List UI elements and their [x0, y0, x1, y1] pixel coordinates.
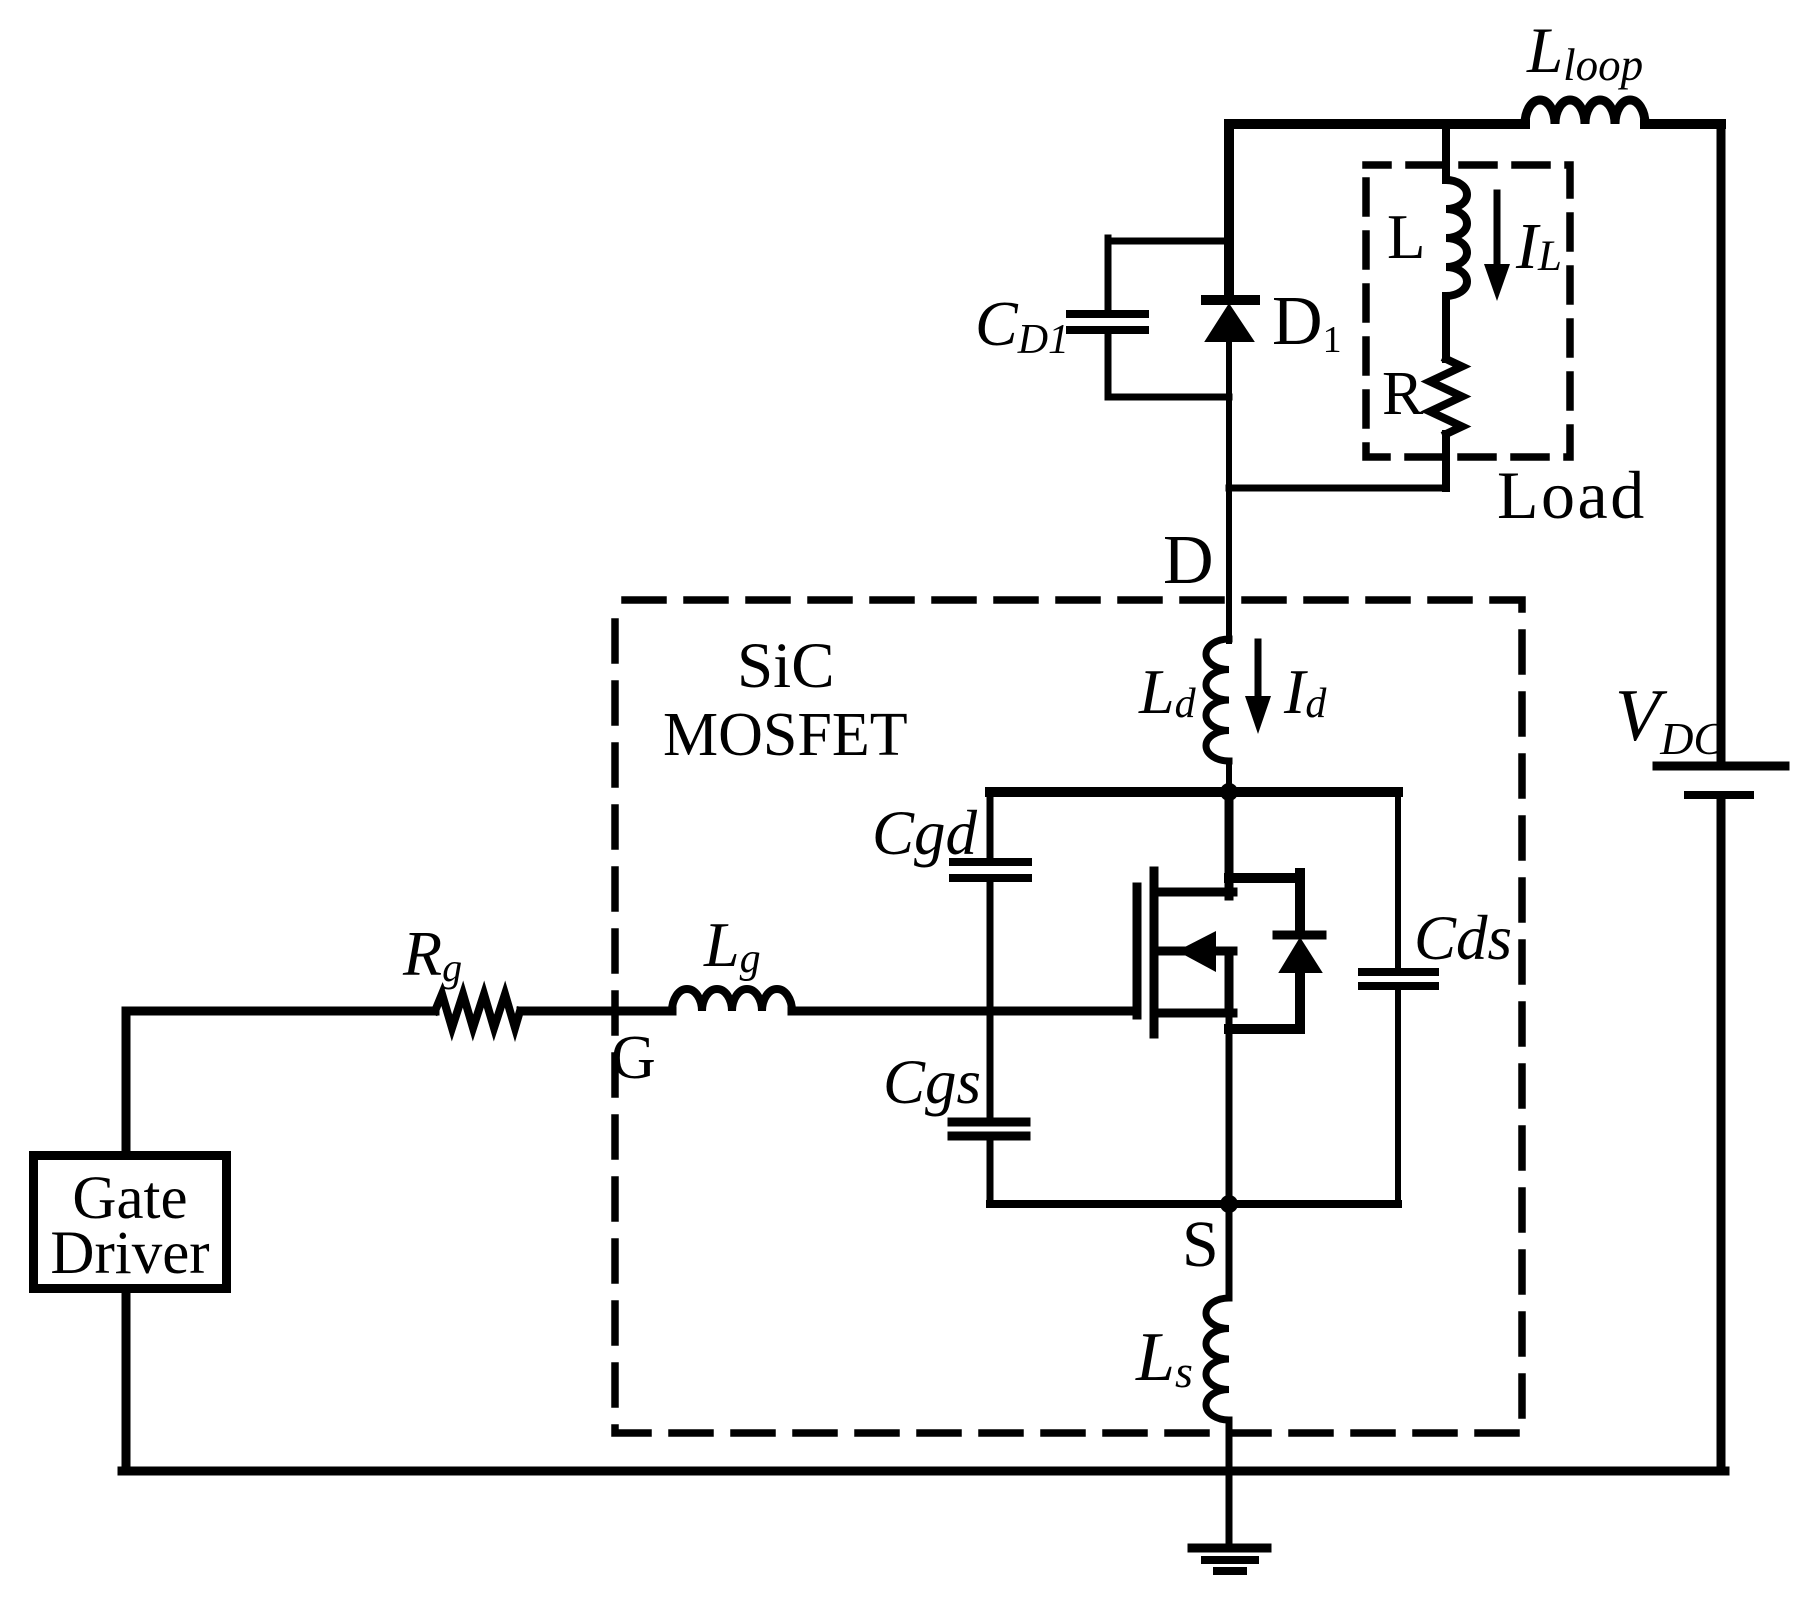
wire main vertical thick (top corner to D1 cathode) [1224, 124, 1234, 300]
wire gate run (driver to MOSFET gate) [126, 1007, 435, 1016]
node drain junction dot [1220, 783, 1238, 801]
wire gate driver bottom lead [122, 1289, 131, 1471]
wire main vertical (D1 anode down to MOSFET box) [1226, 341, 1232, 641]
svg-text:Driver: Driver [50, 1220, 209, 1287]
capacitor Cgd top plate [953, 858, 1028, 866]
capacitor Cds upper lead [1395, 792, 1401, 968]
gate driver box [34, 1156, 227, 1289]
capacitor Cgs top plate [952, 1118, 1026, 1127]
arrow Id current [1255, 642, 1262, 700]
svg-text:SiC: SiC [737, 630, 835, 702]
capacitor Cds lower lead [1395, 990, 1401, 1204]
capacitor Cgs lower lead [987, 1140, 994, 1204]
wire Lg to gate bar [792, 1007, 1137, 1016]
ground symbol bar2 [1205, 1556, 1255, 1564]
capacitor Cds top plate [1362, 968, 1435, 976]
resistor R (load) [1430, 359, 1462, 434]
svg-text:Rg: Rg [402, 918, 462, 990]
svg-text:IL: IL [1515, 210, 1562, 283]
svg-text:Cds: Cds [1414, 903, 1512, 973]
wire gate driver top lead [122, 1011, 131, 1155]
MOSFET box dashed outline [615, 600, 1522, 1433]
capacitor Cgs bottom plate [952, 1132, 1026, 1141]
resistor Rg [435, 994, 520, 1028]
body diode triangle [1280, 939, 1321, 972]
body diode branch right vertical upper [1295, 873, 1305, 931]
body diode cathode bar [1277, 931, 1322, 940]
svg-text:Lg: Lg [703, 909, 761, 982]
diode D1 cathode bar [1206, 295, 1255, 305]
svg-text:L: L [1387, 202, 1425, 272]
capacitor Cgd bottom plate [953, 874, 1028, 882]
capacitor Cgs upper lead [987, 1011, 994, 1117]
battery VDC negative plate [1688, 791, 1750, 799]
inductor Ld [1206, 639, 1229, 761]
wire top rail left segment [1229, 119, 1525, 129]
diode D1 triangle [1206, 305, 1253, 341]
wire load bottom rail [1229, 485, 1446, 492]
wire Rg to Lg [521, 1007, 672, 1016]
transistor Q1 source tap [1154, 1009, 1233, 1018]
wire drain vertical into MOSFET [1225, 792, 1234, 896]
wire load branch from top rail [1442, 124, 1450, 180]
capacitor Cgd lower lead (to gate wire) [987, 882, 994, 1011]
wire R to load bottom rail [1442, 434, 1450, 488]
transistor Q1 body-source vertical link [1225, 951, 1234, 1013]
svg-text:Id: Id [1283, 656, 1327, 727]
capacitor CD1 top lead [1108, 238, 1229, 245]
transistor Q1 drain tap [1154, 888, 1233, 897]
svg-text:CD1: CD1 [975, 288, 1069, 363]
inductor Lloop [1525, 100, 1645, 124]
inductor Lg [672, 989, 792, 1011]
capacitor Cgd upper lead [987, 792, 994, 858]
transistor Q1 body tap with arrow [1154, 947, 1233, 956]
svg-text:Lloop: Lloop [1526, 15, 1643, 90]
body diode branch right vertical lower [1295, 972, 1305, 1029]
transistor Q1 gate bar [1133, 887, 1142, 1015]
wire bottom cap rail (Cgs to Cds) [990, 1200, 1398, 1208]
svg-text:R: R [1382, 360, 1424, 428]
svg-text:Cgs: Cgs [883, 1047, 981, 1117]
wire top rail Cgd to Cds [990, 787, 1398, 797]
wire L to R (load) [1442, 296, 1450, 359]
transistor Q1 channel bar [1150, 871, 1159, 1034]
wire Ld to drain node [1226, 761, 1232, 792]
svg-text:D1: D1 [1272, 283, 1342, 361]
capacitor CD1 left upper lead [1105, 238, 1112, 310]
svg-text:Load: Load [1497, 457, 1647, 533]
capacitor Cds bottom plate [1362, 982, 1435, 990]
wire right vertical lower (battery to bottom rail) [1717, 799, 1726, 1471]
svg-text:D: D [1163, 522, 1214, 599]
inductor L (load) [1446, 180, 1467, 296]
capacitor CD1 bottom lead [1108, 394, 1229, 401]
capacitor CD1 left lower lead [1105, 334, 1112, 397]
svg-text:Cgd: Cgd [872, 798, 978, 868]
load box dashed outline [1366, 165, 1570, 457]
capacitor CD1 top plate [1070, 310, 1145, 318]
ground symbol bar3 [1217, 1567, 1243, 1575]
svg-text:MOSFET: MOSFET [663, 701, 908, 769]
svg-text:S: S [1182, 1208, 1219, 1281]
battery VDC positive plate [1657, 762, 1785, 771]
wire bottom rail [122, 1467, 1725, 1476]
svg-text:VDC: VDC [1615, 675, 1725, 764]
wire right vertical upper (to battery) [1717, 124, 1726, 762]
svg-text:Ls: Ls [1135, 1319, 1193, 1397]
node source junction dot [1220, 1195, 1238, 1213]
svg-text:Ld: Ld [1138, 656, 1197, 727]
ground symbol bar1 [1192, 1544, 1267, 1553]
svg-text:G: G [611, 1024, 656, 1092]
capacitor CD1 bottom plate [1070, 326, 1145, 334]
inductor Ls [1206, 1298, 1229, 1420]
body diode branch top wire [1229, 873, 1300, 883]
body diode branch bottom wire [1229, 1024, 1300, 1034]
wire Ls to bottom rail and ground stem [1226, 1420, 1233, 1546]
wire top rail right segment [1645, 119, 1721, 129]
wire source vertical (MOSFET to Ls) [1226, 1013, 1233, 1298]
arrow IL current [1494, 193, 1501, 268]
